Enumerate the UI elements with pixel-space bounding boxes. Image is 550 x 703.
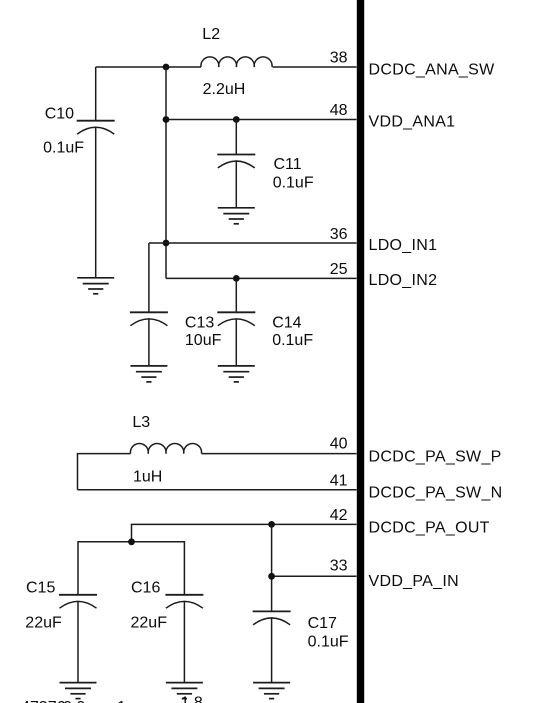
- capacitor C16: [165, 595, 203, 608]
- svg-text:48: 48: [330, 102, 348, 119]
- svg-text:DCDC_ANA_SW: DCDC_ANA_SW: [369, 61, 496, 78]
- wire pin25 net LDO_IN2: [166, 277, 357, 279]
- capacitor C13: [130, 312, 168, 325]
- node junction rail: [128, 538, 135, 545]
- wire pin38 right segment: [273, 66, 357, 68]
- wire C14 bottom vertical: [235, 319, 237, 366]
- ground C10: [77, 278, 114, 294]
- wire pin41 net DCDC_PA_SW_N: [78, 489, 357, 491]
- wire L3 left leg: [78, 454, 131, 490]
- svg-text:38: 38: [330, 50, 348, 67]
- wire bulk cap rail: [78, 542, 184, 595]
- wire C11 bottom vertical: [235, 161, 237, 208]
- svg-text:42: 42: [330, 507, 348, 524]
- svg-text:47376: 47376: [21, 699, 66, 703]
- inductor L3: [130, 443, 201, 453]
- svg-text:C13: C13: [185, 315, 214, 332]
- capacitor C15: [59, 595, 97, 608]
- node junction pin42: [268, 521, 275, 528]
- wire pin38 net DCDC_ANA_SW left segment: [96, 66, 201, 68]
- svg-text:33: 33: [330, 558, 348, 575]
- IC edge bar: [357, 0, 364, 703]
- wire vertical main rail x166: [165, 67, 167, 278]
- svg-text:1.8: 1.8: [181, 695, 203, 703]
- capacitor C11: [217, 155, 255, 168]
- node junction pin25: [233, 275, 240, 282]
- svg-text:40: 40: [330, 436, 348, 453]
- node junction pin36: [163, 240, 170, 247]
- svg-text:2.2uH: 2.2uH: [203, 81, 246, 98]
- wire C10 top vertical: [95, 67, 97, 121]
- svg-text:22uF: 22uF: [25, 614, 62, 631]
- svg-text:DCDC_PA_SW_P: DCDC_PA_SW_P: [369, 448, 502, 465]
- svg-text:L2: L2: [202, 26, 220, 43]
- svg-text:10uF: 10uF: [185, 332, 222, 349]
- node junction pin38: [163, 64, 170, 71]
- wire pin40 net DCDC_PA_SW_P: [202, 453, 357, 455]
- svg-text:1uH: 1uH: [133, 468, 162, 485]
- node junction x166 pin48: [163, 116, 170, 123]
- svg-text:L3: L3: [132, 414, 150, 431]
- ground C14: [218, 366, 255, 382]
- svg-text:41: 41: [330, 473, 348, 490]
- svg-text:C11: C11: [274, 156, 302, 173]
- svg-text:25: 25: [330, 261, 348, 278]
- capacitor C10: [77, 121, 115, 134]
- svg-text:C10: C10: [45, 105, 74, 122]
- wire C17 bottom vertical: [271, 618, 273, 683]
- svg-text:0.1uF: 0.1uF: [272, 332, 313, 349]
- wire C17 top vertical: [271, 524, 273, 611]
- svg-text:VDD_PA_IN: VDD_PA_IN: [369, 573, 459, 590]
- wire pin36 net LDO_IN1: [149, 242, 357, 244]
- svg-text:0.1uF: 0.1uF: [273, 174, 314, 191]
- svg-text:36: 36: [330, 226, 348, 243]
- svg-text:DCDC_PA_SW_N: DCDC_PA_SW_N: [369, 485, 503, 502]
- svg-text:C15: C15: [26, 579, 55, 596]
- inductor L2: [201, 57, 272, 67]
- wire pin33 net VDD_PA_IN: [272, 575, 357, 577]
- svg-text:1: 1: [117, 699, 126, 703]
- svg-text:LDO_IN1: LDO_IN1: [369, 237, 438, 254]
- svg-text:22uF: 22uF: [131, 614, 168, 631]
- wire C11 top vertical: [235, 120, 237, 155]
- svg-text:0.1uF: 0.1uF: [43, 140, 84, 157]
- svg-text:LDO_IN2: LDO_IN2: [369, 272, 438, 289]
- node junction x236 pin48: [233, 116, 240, 123]
- wire C13 bottom vertical: [148, 319, 150, 366]
- svg-text:VDD_ANA1: VDD_ANA1: [369, 114, 456, 131]
- ground C13: [130, 366, 167, 382]
- wire C10 bottom vertical: [95, 127, 97, 277]
- ground C16: [166, 683, 203, 699]
- svg-text:0.0: 0.0: [63, 699, 85, 703]
- capacitor C17: [253, 611, 291, 624]
- ground C11: [218, 208, 255, 224]
- svg-text:0.1uF: 0.1uF: [308, 633, 349, 650]
- ground C15: [60, 683, 97, 699]
- svg-text:a: a: [3, 699, 12, 703]
- capacitor C14: [217, 312, 255, 325]
- wire C16 bottom vertical: [183, 602, 185, 683]
- svg-text:C17: C17: [308, 615, 337, 632]
- wire C15 bottom vertical: [77, 602, 79, 683]
- svg-text:s: s: [106, 699, 114, 703]
- wire C14 top vertical: [235, 278, 237, 312]
- svg-text:DCDC_PA_OUT: DCDC_PA_OUT: [369, 519, 490, 536]
- wire pin42 net DCDC_PA_OUT: [132, 524, 357, 541]
- svg-text:C16: C16: [131, 579, 160, 596]
- node junction pin33: [268, 573, 275, 580]
- wire pin48 net VDD_ANA1: [166, 119, 357, 121]
- svg-text:C14: C14: [272, 315, 301, 332]
- wire C13 top vertical: [148, 243, 150, 312]
- ground C17: [253, 683, 290, 699]
